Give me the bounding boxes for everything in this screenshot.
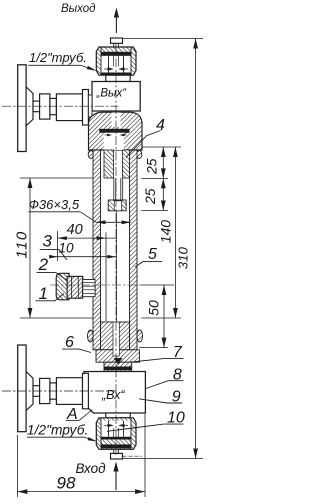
component: top stem end plate — [83, 90, 89, 126]
label: 1/2" pipe (top) with leader — [28, 50, 96, 71]
node: main vertical centerline — [115, 43, 117, 456]
component: bottom nipple — [111, 449, 143, 459]
component: top valve body box — [92, 82, 140, 112]
svg-text:3: 3 — [43, 231, 53, 250]
wire: bottom inlet flow arrow — [113, 462, 118, 491]
node: top stem centerline — [2, 105, 118, 107]
component: bottom valve body box — [84, 372, 145, 414]
component: top stem collar — [40, 94, 50, 119]
component: bottom stem hub — [26, 372, 33, 411]
label: part 7 with leader — [132, 344, 183, 362]
label: part 1 with leader — [35, 284, 64, 303]
component: bottom stem cylinder — [56, 378, 82, 405]
component: tube weld beads (top) — [88, 151, 93, 159]
label: part 4 with leader — [126, 117, 165, 157]
wire: top outlet flow arrow — [114, 8, 119, 34]
label: part 9 with leader — [139, 389, 182, 406]
component: side fitting cap (part 1, sectioned) — [56, 273, 69, 300]
svg-text:5: 5 — [148, 246, 157, 263]
component: top gland dome (sectioned) — [89, 112, 143, 150]
label: section A with leader — [66, 406, 93, 423]
svg-text:Вход: Вход — [76, 461, 107, 476]
dimension 40 — [58, 222, 118, 321]
wire: bottom extension line from nipple to 310 dim — [123, 458, 204, 460]
node: bottom stem centerline — [2, 390, 116, 392]
component: top stem shaft — [33, 101, 40, 112]
svg-text:„Вх“: „Вх“ — [101, 388, 125, 402]
component: gauge tube left wall (sectioned) — [93, 150, 101, 350]
component: bottom valve neck — [106, 413, 130, 418]
svg-text:110: 110 — [13, 230, 30, 258]
component: top hex cap nut (sectioned) — [96, 47, 136, 75]
svg-text:98: 98 — [57, 474, 76, 493]
component: tube weld beads (bottom) — [88, 330, 94, 342]
svg-text:Выход: Выход — [61, 3, 96, 15]
label: part 5 with leader — [135, 246, 162, 267]
component: side fitting nipple (part 3) — [83, 280, 95, 297]
component: inner probe tube walls — [114, 178, 123, 200]
component: bottom plug inside tube (sectioned) — [96, 322, 139, 372]
svg-text:1/2"труб.: 1/2"труб. — [29, 50, 87, 65]
dimension 110 (left) — [13, 178, 93, 318]
component: top stem cylinder — [56, 94, 82, 121]
label: Ф36х3,5 tube size with leader — [28, 197, 130, 224]
svg-text:2: 2 — [38, 255, 49, 274]
component: bottom stem shaft — [33, 386, 40, 397]
svg-text:25: 25 — [143, 158, 159, 175]
dimension 98 (bottom) — [17, 414, 145, 497]
svg-text:40: 40 — [67, 222, 83, 238]
svg-text:25: 25 — [142, 188, 158, 205]
svg-text:Ф36×3,5: Ф36×3,5 — [29, 197, 80, 212]
component: top flange plate — [18, 65, 26, 152]
svg-text:1: 1 — [39, 284, 48, 303]
component: top stem hub — [26, 87, 33, 126]
dimension 50 (right) — [139, 285, 168, 348]
component: gauge tube right wall (sectioned) — [130, 150, 138, 350]
label: part 8 with leader — [146, 366, 183, 388]
dimension 10 — [49, 241, 116, 259]
label: part 10 with leader — [107, 410, 185, 432]
wire: top extension line from nipple to 310 dim — [123, 38, 204, 40]
svg-text:50: 50 — [146, 300, 162, 316]
svg-text:10: 10 — [59, 241, 75, 256]
label: part 2 with leader — [37, 255, 69, 281]
component: top nipple — [111, 38, 123, 47]
svg-text:140: 140 — [157, 220, 173, 244]
svg-text:310: 310 — [176, 247, 191, 270]
component: inner sleeve (sectioned) — [104, 150, 130, 178]
component: bottom stem spacer — [50, 383, 57, 399]
svg-text:1/2"труб.: 1/2"труб. — [27, 423, 88, 438]
dimension 25 + 25 (right chain) — [141, 147, 181, 211]
label: 1/2" pipe (bottom) with leader — [27, 423, 97, 442]
component: bottom stem end plate — [83, 373, 89, 409]
dimension 140 (right) — [141, 147, 181, 318]
component: bottom stem collar — [40, 378, 50, 403]
component: probe tube end piece (sectioned) — [108, 200, 126, 211]
label: part 3 with leader — [40, 231, 67, 260]
svg-text:„Вых“: „Вых“ — [96, 88, 128, 100]
component: top valve neck — [106, 75, 130, 81]
component: side fitting sleeve (part 2, sectioned) — [67, 276, 83, 298]
dimension 310 (right vertical) — [176, 39, 199, 459]
wire: inner rod line — [116, 211, 118, 322]
node: side fitting centerline / 50-dim extension — [50, 284, 141, 286]
component: bottom hex cap nut (sectioned) — [96, 418, 136, 450]
label: part 6 with leader — [62, 334, 91, 353]
svg-text:6: 6 — [65, 334, 74, 351]
component: bottom flange plate — [18, 345, 26, 432]
component: top stem spacer — [50, 98, 57, 114]
